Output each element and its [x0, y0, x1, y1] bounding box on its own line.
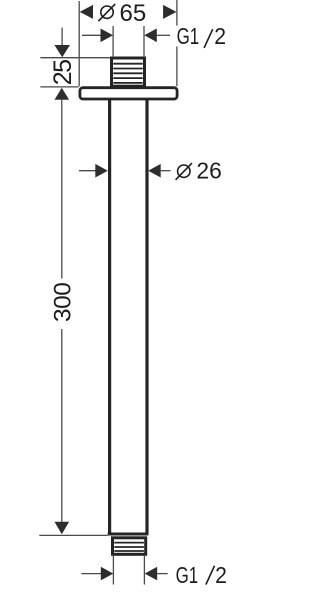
extension line 300 bottom — [39, 534, 107, 536]
label Ø 65 diameter symbol — [98, 4, 115, 21]
svg-text:25: 25 — [49, 60, 77, 85]
extension line G1/2 bottom left — [112, 556, 114, 585]
pipe right wall — [145, 99, 148, 535]
label G1/2 bottom — [176, 562, 227, 588]
dimension G1/2 top right arrow — [144, 29, 170, 43]
label G1/2 top — [177, 23, 227, 49]
dimension Ø26 right arrow — [148, 164, 170, 178]
dimension Ø26 left arrow — [79, 164, 108, 178]
extension line Ø65 right upper segment — [176, 0, 178, 26]
dimension 300 bottom arrowhead — [55, 522, 70, 535]
dimension 25 top arrow — [54, 28, 70, 58]
extension line 25 bottom / flange top — [40, 86, 78, 88]
dimension G1/2 bottom right arrow — [145, 567, 168, 581]
svg-text:65: 65 — [120, 0, 147, 27]
svg-text:2: 2 — [215, 562, 227, 588]
svg-text:G1: G1 — [176, 562, 199, 588]
extension line G1/2 top right — [143, 26, 145, 57]
top thread block G1/2 — [112, 58, 145, 86]
flange plate Ø65 — [80, 88, 177, 99]
svg-text:2: 2 — [214, 23, 226, 49]
dimension line 300 upper segment — [61, 99, 63, 279]
dimension G1/2 top left arrow — [82, 29, 113, 43]
extension line G1/2 bottom right — [143, 556, 145, 585]
pipe left wall — [108, 99, 111, 535]
extension line G1/2 top left — [112, 26, 114, 57]
extension line Ø65 left — [78, 1, 80, 86]
bottom thread block G1/2 — [113, 538, 146, 555]
dimension 25/300 shared up arrowhead — [55, 88, 70, 100]
extension line Ø65 right lower segment — [176, 47, 178, 87]
svg-text:26: 26 — [196, 158, 221, 184]
label Ø 26 diameter symbol — [176, 163, 192, 180]
dimension line 300 lower segment — [61, 329, 63, 522]
svg-text:300: 300 — [49, 283, 76, 322]
dimension G1/2 bottom left arrow — [81, 567, 113, 581]
dimension Ø65 left arrowhead — [80, 5, 93, 19]
pipe bottom cap — [108, 533, 149, 536]
extension line 25 top — [40, 57, 110, 59]
dimension Ø65 right arrowhead — [163, 5, 176, 19]
svg-text:G1: G1 — [177, 23, 200, 49]
